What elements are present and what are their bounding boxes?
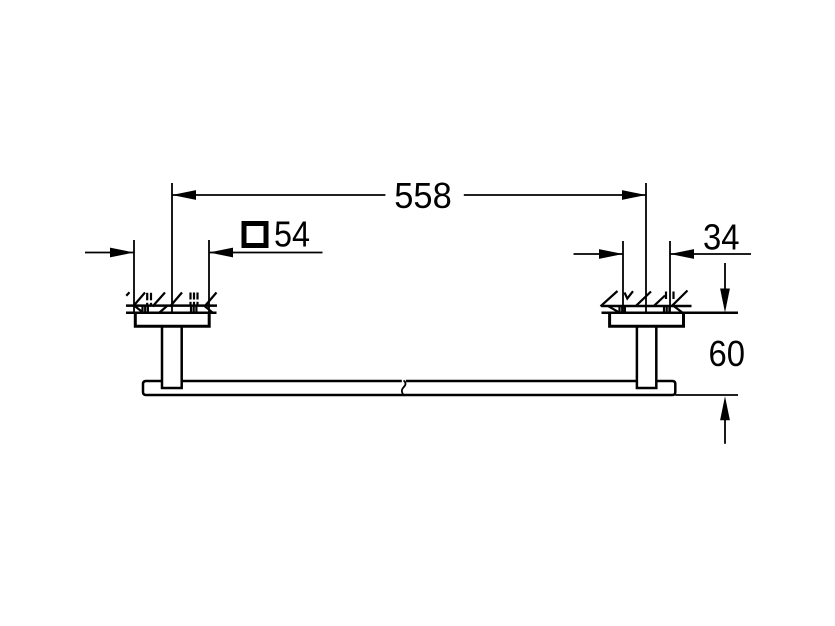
dimension 558 right extension line xyxy=(645,183,647,312)
towel bar outline xyxy=(143,381,675,395)
dimension 34 right arrowhead xyxy=(670,249,694,259)
dimension 558 left extension line xyxy=(171,183,173,312)
dimension 558 right arrowhead xyxy=(622,190,646,200)
dimension 34 right tail line xyxy=(670,253,751,255)
dimension 54 left extension line xyxy=(133,240,135,313)
dimension 558 left arrowhead xyxy=(172,190,196,200)
left wall line xyxy=(126,311,217,314)
bar bottom extension line xyxy=(675,394,738,396)
dimension 54 right extension line xyxy=(208,240,210,313)
svg-text:558: 558 xyxy=(394,175,452,216)
right post xyxy=(637,326,656,388)
towel bar top edge segment (left of break) xyxy=(182,380,402,383)
square symbol for 54 xyxy=(244,224,266,246)
right wall hatch upper line xyxy=(602,305,692,308)
dimension 558 dim line xyxy=(172,194,646,196)
dimension 60 down arrow line xyxy=(724,263,726,290)
right wall line xyxy=(602,311,739,314)
dimension 34 right extension line xyxy=(669,241,671,313)
dimension 54 left arrowhead xyxy=(110,248,134,258)
break squiggle xyxy=(402,380,406,395)
dimension 60 up arrow line xyxy=(724,420,726,444)
right wall hatch marks xyxy=(601,291,688,313)
right mounting plate xyxy=(610,313,684,327)
svg-text:34: 34 xyxy=(703,217,740,258)
dimension 54 right tail line xyxy=(209,252,323,254)
dimension 34 left extension line xyxy=(622,241,624,313)
left post xyxy=(162,326,182,388)
dimension 60 down arrowhead xyxy=(720,289,730,313)
dimension 34 left tail line xyxy=(574,253,624,255)
towel bar top edge segment (right of break) xyxy=(406,380,637,383)
dimension 60 up arrowhead xyxy=(720,396,730,420)
left mounting plate xyxy=(135,313,209,327)
svg-text:60: 60 xyxy=(709,333,746,374)
dimension 34 left arrowhead xyxy=(599,249,623,259)
left wall hatch upper line xyxy=(126,304,217,307)
dimension 54 right arrowhead xyxy=(209,248,233,258)
left wall hatch marks xyxy=(126,292,216,312)
dimension 54 left tail line xyxy=(85,252,134,254)
svg-text:54: 54 xyxy=(274,214,310,255)
